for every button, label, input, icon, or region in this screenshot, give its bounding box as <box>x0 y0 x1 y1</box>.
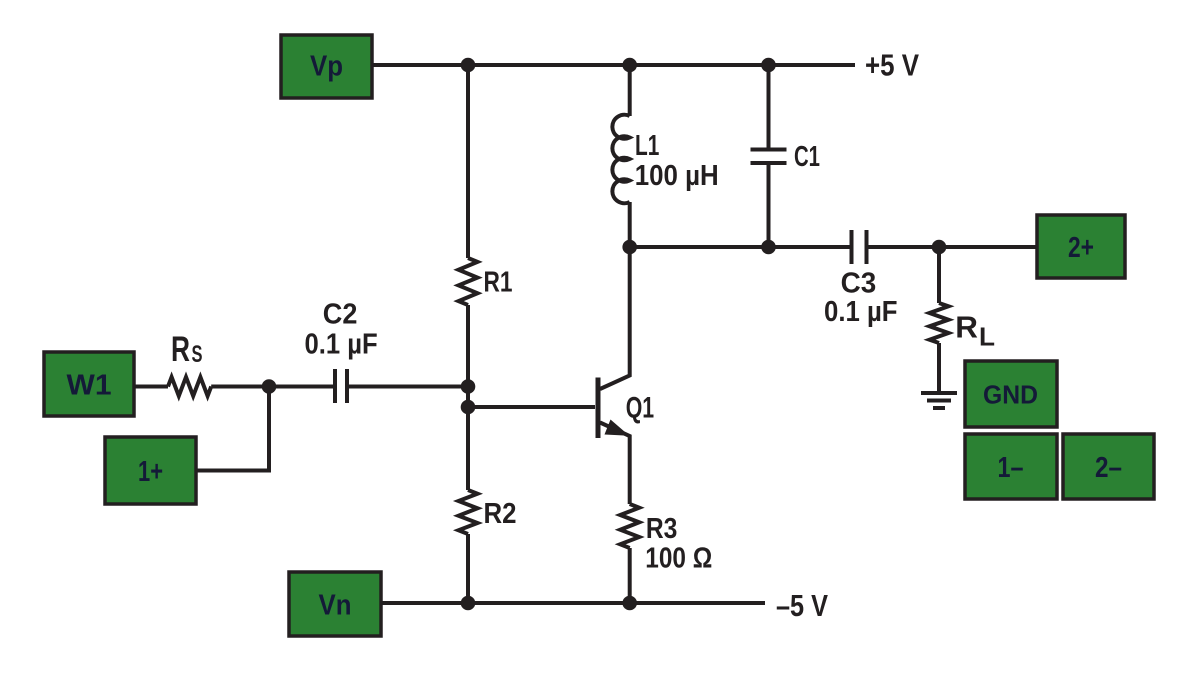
resistor RL <box>930 303 949 343</box>
capacitor C2 <box>333 369 337 403</box>
node dot W1/1+ junction <box>262 379 277 394</box>
svg-text:100 µH: 100 µH <box>635 160 719 192</box>
terminal box 2- <box>1063 434 1154 499</box>
terminal box 2+ <box>1037 215 1125 278</box>
svg-text:L1: L1 <box>635 130 659 162</box>
terminal box W1 <box>44 352 134 416</box>
transistor Q1 base bar <box>596 378 601 439</box>
inductor L1 <box>612 115 629 203</box>
svg-text:R: R <box>955 309 978 344</box>
transistor Q1 emitter <box>600 423 630 505</box>
wire R2 to bottom rail <box>466 534 470 603</box>
wire top rail +5V <box>372 63 855 67</box>
svg-text:Vp: Vp <box>310 50 343 82</box>
wire RL to ground <box>937 343 941 391</box>
wire C1 bottom <box>767 165 771 247</box>
ground <box>921 391 957 395</box>
resistor R3 <box>620 504 639 548</box>
terminal box Vp <box>281 35 372 98</box>
node dot base column lower <box>461 400 476 415</box>
svg-text:L: L <box>979 321 995 351</box>
svg-text:R: R <box>171 330 190 369</box>
svg-text:0.1 µF: 0.1 µF <box>824 296 898 328</box>
capacitor C3 <box>850 230 854 264</box>
svg-text:C2: C2 <box>323 299 358 331</box>
wire C2 to base column <box>349 385 468 389</box>
capacitor C1 <box>751 148 787 152</box>
svg-text:2–: 2– <box>1095 452 1122 484</box>
terminal box 1+ <box>105 437 196 504</box>
node dot top rail 3 <box>761 58 776 73</box>
wire R1 to R2 <box>466 305 470 490</box>
svg-text:0.1 µF: 0.1 µF <box>305 329 378 361</box>
svg-text:R2: R2 <box>484 498 517 530</box>
svg-text:2+: 2+ <box>1068 232 1094 264</box>
node dot base column upper <box>461 379 476 394</box>
svg-text:W1: W1 <box>67 370 112 402</box>
svg-text:1+: 1+ <box>138 456 163 488</box>
svg-text:–5 V: –5 V <box>776 588 828 623</box>
transistor Q1 emitter arrow <box>605 420 630 436</box>
wire Rs to C2 <box>211 385 333 389</box>
wire L1 column top <box>628 65 632 116</box>
svg-text:C1: C1 <box>794 141 820 173</box>
svg-text:S: S <box>192 341 203 368</box>
wire vertical R1/R2 column <box>466 65 470 258</box>
node dot bottom rail 2 <box>622 596 637 611</box>
svg-text:C3: C3 <box>841 268 877 300</box>
svg-text:100 Ω: 100 Ω <box>645 542 712 574</box>
wire C3 to 2+ <box>869 245 1038 249</box>
node dot mid rail 2 <box>761 240 776 255</box>
resistor R2 <box>459 490 478 534</box>
svg-text:R3: R3 <box>646 513 678 545</box>
resistor R1 <box>459 258 478 305</box>
svg-text:GND: GND <box>983 379 1038 409</box>
svg-text:+5 V: +5 V <box>865 47 919 82</box>
wire W1 to Rs <box>134 385 168 389</box>
svg-text:1–: 1– <box>998 452 1024 484</box>
terminal box GND <box>965 361 1057 427</box>
wire R3 to bottom rail <box>628 548 632 603</box>
wire L1 bottom <box>628 202 632 247</box>
node dot mid rail 1 <box>622 240 637 255</box>
wire RL column <box>937 247 941 303</box>
node dot top rail 2 <box>622 58 637 73</box>
terminal box 1- <box>965 434 1057 499</box>
wire base of Q1 <box>468 405 595 409</box>
transistor Q1 collector <box>600 247 630 389</box>
wire bottom rail -5V <box>381 601 765 605</box>
svg-text:Q1: Q1 <box>626 391 654 424</box>
wire 1+ L bend <box>196 387 269 471</box>
node dot mid rail 3 <box>932 240 947 255</box>
terminal box Vn <box>289 572 381 636</box>
node dot bottom rail 1 <box>461 596 476 611</box>
svg-text:Vn: Vn <box>319 590 352 622</box>
wire C1 column top <box>767 65 771 148</box>
resistor Rs <box>168 377 211 396</box>
node dot top rail 1 <box>461 58 476 73</box>
wire mid rail <box>630 245 850 249</box>
svg-text:R1: R1 <box>484 267 513 299</box>
